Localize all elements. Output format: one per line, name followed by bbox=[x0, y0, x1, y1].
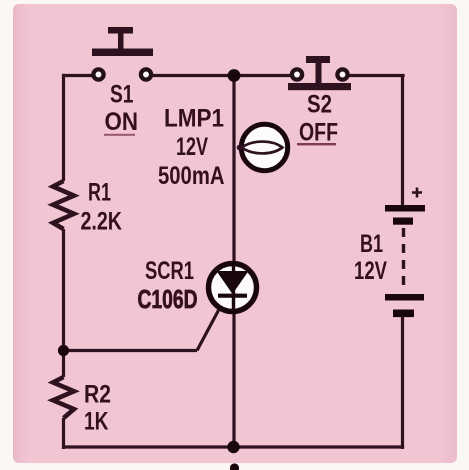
SCR anode triangle bbox=[217, 271, 249, 294]
wire gate horizontal bbox=[64, 349, 198, 352]
wire top: S2 right contact to right rail bbox=[349, 74, 405, 77]
SCR SCR1 bbox=[209, 264, 257, 313]
S1 actuator bar bbox=[92, 49, 153, 57]
svg-text:R2: R2 bbox=[84, 381, 111, 409]
S2 left contact bbox=[292, 69, 302, 79]
wire center vertical upper (junction to SCR) bbox=[232, 74, 235, 264]
svg-text:12V: 12V bbox=[354, 257, 387, 285]
node: gate junction bbox=[58, 345, 69, 356]
SCR body circle bbox=[209, 264, 257, 312]
svg-text:2.2K: 2.2K bbox=[81, 208, 123, 236]
svg-text:LMP1: LMP1 bbox=[164, 105, 224, 133]
svg-text:R1: R1 bbox=[88, 179, 111, 207]
pushbutton S2 bbox=[288, 56, 351, 90]
S1 stem bbox=[118, 31, 124, 50]
node: top junction bbox=[228, 69, 241, 82]
svg-text:S1: S1 bbox=[110, 81, 134, 109]
S2 closed contact bar bbox=[288, 83, 351, 90]
wire gate diagonal to SCR bbox=[197, 299, 225, 351]
svg-text:1K: 1K bbox=[84, 408, 109, 436]
svg-text:OFF: OFF bbox=[299, 119, 338, 147]
lamp envelope circle bbox=[241, 124, 287, 170]
pushbutton S1 bbox=[92, 27, 153, 80]
battery plus sign bbox=[412, 188, 422, 198]
lamp lead junction nub bbox=[237, 145, 243, 151]
battery dashed middle link bbox=[402, 228, 405, 292]
svg-text:ON: ON bbox=[105, 108, 139, 136]
underline ON bbox=[104, 134, 135, 136]
S2 stem bbox=[316, 60, 322, 84]
wire top: S1 right contact to S2 left contact bbox=[152, 74, 291, 77]
battery positive plate (cell 1) bbox=[385, 205, 425, 212]
battery negative plate (cell 1) bbox=[393, 218, 413, 225]
svg-text:B1: B1 bbox=[360, 230, 383, 258]
S1 button cap bbox=[108, 27, 133, 34]
wire right rail upper (to battery) bbox=[401, 74, 404, 206]
S2 button cap bbox=[306, 56, 330, 63]
lamp LMP1 bbox=[237, 124, 288, 170]
wire left rail middle segment bbox=[62, 229, 65, 377]
svg-text:C106D: C106D bbox=[138, 284, 198, 314]
svg-text:S2: S2 bbox=[307, 91, 332, 119]
node: bottom junction bbox=[227, 441, 239, 453]
node: bottom edge dot bbox=[230, 463, 239, 470]
wire top: left rail to S1 left contact bbox=[62, 74, 93, 77]
battery negative plate (cell 2) bbox=[393, 310, 414, 318]
battery B1 bbox=[385, 188, 425, 318]
wire right rail lower (battery to bottom) bbox=[401, 317, 404, 449]
lamp filament lens bbox=[242, 142, 283, 154]
SCR through lead bbox=[232, 265, 235, 312]
svg-text:12V: 12V bbox=[176, 133, 208, 161]
S1 right contact bbox=[141, 69, 151, 79]
S2 right contact bbox=[337, 69, 347, 79]
wire left rail bottom segment bbox=[62, 418, 65, 449]
resistor R1 bbox=[53, 181, 74, 229]
resistor R2 bbox=[53, 377, 74, 418]
wire bottom rail bbox=[62, 445, 404, 448]
S1 left contact bbox=[93, 69, 103, 79]
svg-text:SCR1: SCR1 bbox=[145, 257, 194, 285]
underline OFF bbox=[297, 143, 336, 145]
wire left rail top segment bbox=[62, 74, 65, 181]
battery positive plate (cell 2) bbox=[385, 294, 424, 301]
wire center vertical lower (SCR to bottom) bbox=[232, 312, 235, 449]
svg-text:500mA: 500mA bbox=[158, 162, 225, 190]
SCR cathode bar bbox=[218, 294, 247, 298]
